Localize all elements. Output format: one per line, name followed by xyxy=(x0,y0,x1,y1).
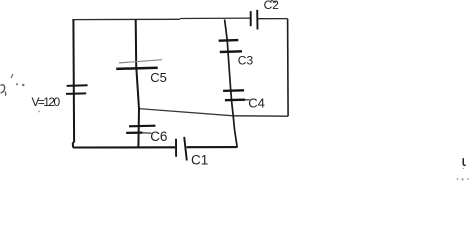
stray mark bottom right hook xyxy=(463,158,466,165)
wire: top right segment xyxy=(258,18,288,20)
wire: left vertical xyxy=(73,19,74,148)
svg-text:C4: C4 xyxy=(248,96,265,111)
wire: right vertical xyxy=(287,19,290,117)
wire: branch C5/C6 vertical xyxy=(136,20,139,148)
wire: top horizontal xyxy=(73,18,180,20)
source V plates xyxy=(66,85,88,94)
svg-text:C6: C6 xyxy=(150,129,167,144)
wire: top horizontal right part xyxy=(180,17,251,19)
stray dots bottom right xyxy=(457,168,469,181)
capacitor C4 xyxy=(223,90,249,100)
capacitor C1 xyxy=(176,137,187,161)
stray marks left edge xyxy=(1,74,40,112)
capacitor C6 xyxy=(126,126,155,134)
capacitor C3 xyxy=(219,40,242,52)
wire: branch C3/C4 slanted vertical xyxy=(225,20,238,148)
svg-text:V=120: V=120 xyxy=(32,95,61,109)
svg-text:C1: C1 xyxy=(191,153,208,168)
stray mark above C2 xyxy=(271,1,277,3)
svg-text:C3: C3 xyxy=(238,54,254,68)
wire: bottom right horizontal xyxy=(233,115,288,117)
wire: bottom horizontal xyxy=(73,146,175,148)
capacitor C5 xyxy=(116,60,162,69)
capacitor C2 xyxy=(251,10,258,30)
svg-text:C2: C2 xyxy=(264,0,280,12)
svg-text:C5: C5 xyxy=(150,70,167,85)
wire: middle slanted xyxy=(139,109,233,116)
